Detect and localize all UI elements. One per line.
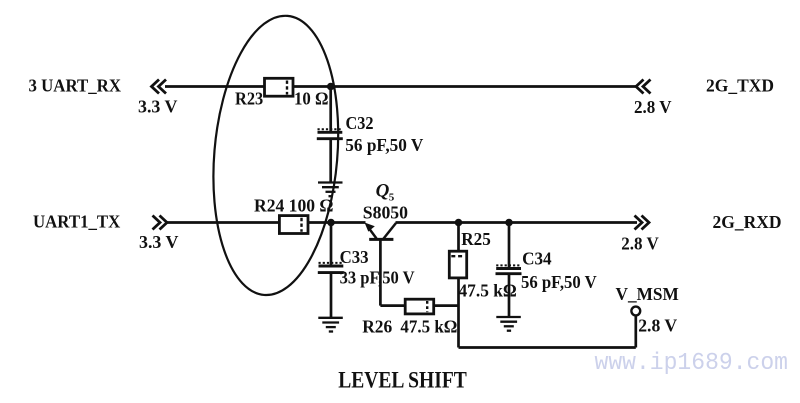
resistor R26	[405, 299, 434, 314]
svg-text:10 Ω: 10 Ω	[294, 88, 329, 108]
svg-text:LEVEL SHIFT: LEVEL SHIFT	[338, 368, 467, 393]
svg-text:S8050: S8050	[363, 203, 408, 223]
wire C34 stub upper	[508, 223, 511, 269]
node D (C34 tap on output wire)	[505, 219, 513, 227]
capacitor C34	[496, 265, 522, 273]
node B (R24 out / C33 tap)	[327, 219, 335, 227]
wire bottom row left (UART1_TX to Q5 emitter)	[165, 221, 366, 224]
wire Q5 base lead down	[379, 239, 382, 305]
wire C32 stub upper	[329, 87, 332, 132]
ellipse highlight around R23/R24	[203, 11, 349, 300]
svg-text:2.8 V: 2.8 V	[634, 97, 672, 117]
port chevron left bottom (UART1_TX)	[153, 216, 168, 230]
port chevron left top (UART_RX)	[152, 80, 167, 94]
port chevron right bottom (2G_RXD)	[635, 216, 650, 230]
svg-text:C34: C34	[522, 248, 552, 268]
wire R25 stub upper	[457, 223, 460, 252]
svg-text:3 UART_RX: 3 UART_RX	[29, 76, 122, 96]
svg-text:www.ip1689.com: www.ip1689.com	[595, 350, 789, 377]
node A (R23 out / C32 tap)	[327, 83, 335, 91]
svg-text:R24 100 Ω: R24 100 Ω	[254, 196, 334, 216]
svg-text:R25: R25	[461, 229, 491, 249]
wire C32 stub lower	[329, 139, 332, 183]
svg-text:C33: C33	[340, 247, 369, 267]
capacitor C32	[317, 129, 343, 139]
svg-text:V_MSM: V_MSM	[616, 284, 679, 304]
wire top row UART_RX to 2G_TXD	[165, 85, 637, 88]
port chevron right top (2G_TXD)	[636, 80, 651, 94]
terminal V_MSM circle	[631, 307, 640, 316]
wire C33 stub lower	[330, 273, 333, 318]
svg-text:56 pF,50 V: 56 pF,50 V	[521, 272, 597, 292]
resistor R25	[449, 251, 466, 278]
wire R26 to vertical rail	[434, 304, 459, 307]
svg-text:UART1_TX: UART1_TX	[33, 212, 120, 232]
svg-text:56 pF,50 V: 56 pF,50 V	[345, 135, 423, 155]
wire C34 stub lower	[508, 274, 511, 317]
svg-text:2.8 V: 2.8 V	[621, 233, 659, 253]
svg-text:Q: Q	[376, 181, 390, 202]
wire bottom row right (Q5 collector to 2G_RXD)	[396, 221, 638, 224]
node C (R25 tap on output wire)	[455, 219, 463, 227]
wire V_MSM drop	[634, 316, 637, 347]
svg-text:R26: R26	[362, 317, 392, 337]
svg-text:47.5 kΩ: 47.5 kΩ	[459, 281, 517, 301]
capacitor C33	[318, 263, 344, 273]
wire bottom rail	[459, 346, 636, 349]
svg-text:2.8 V: 2.8 V	[638, 316, 677, 336]
svg-text:3.3 V: 3.3 V	[139, 232, 179, 252]
transistor Q1 emitter arrow	[365, 223, 377, 239]
wire R25 bottom to bottom rail	[457, 278, 460, 348]
wire C33 stub upper	[330, 223, 333, 266]
ground (C34)	[496, 317, 521, 331]
ground (C32)	[318, 183, 343, 197]
transistor Q5 collector	[384, 223, 397, 239]
svg-text:2G_RXD: 2G_RXD	[713, 212, 782, 232]
svg-text:C32: C32	[346, 113, 374, 133]
svg-text:33 pF,50 V: 33 pF,50 V	[340, 268, 415, 288]
wire base lead to R26	[380, 304, 405, 307]
svg-text:47.5 kΩ: 47.5 kΩ	[400, 317, 457, 337]
svg-text:R23: R23	[235, 88, 263, 108]
svg-text:2G_TXD: 2G_TXD	[706, 76, 774, 96]
resistor R23	[265, 78, 294, 96]
resistor R24	[279, 216, 308, 234]
ground (C33)	[318, 318, 343, 332]
svg-text:3.3 V: 3.3 V	[138, 96, 178, 116]
transistor Q5 base bar	[369, 238, 393, 241]
